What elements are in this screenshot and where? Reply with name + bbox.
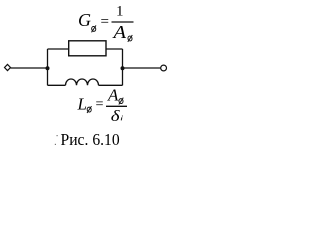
terminal T1 (left input terminal) <box>5 64 11 70</box>
svg-text:=: = <box>101 14 110 30</box>
subscript i of delta_i <box>121 115 123 120</box>
speckle <box>55 144 56 145</box>
wire top branch to resistor <box>48 48 70 50</box>
value label L0 = A0/delta_i (for inductor L0) <box>77 86 128 126</box>
svg-text:L: L <box>77 95 87 114</box>
node junction right (net N2) <box>121 66 125 70</box>
node junction left (net N1) <box>46 66 50 70</box>
svg-text:Рис. 6.10: Рис. 6.10 <box>61 129 120 149</box>
svg-text:δ: δ <box>111 108 120 125</box>
wire resistor to right vertical <box>106 48 123 50</box>
wire left terminal to node N1 <box>11 67 48 69</box>
fraction bar <box>106 105 127 107</box>
subscript 0 of L0 <box>87 106 92 113</box>
subscript 0 of G0 <box>91 25 96 32</box>
wire inductor to right vertical <box>99 84 123 86</box>
wire right vertical branch <box>122 49 124 85</box>
svg-text:=: = <box>96 97 104 113</box>
svg-text:G: G <box>78 10 91 30</box>
value label G0 = 1/A0 (for resistor G0) <box>78 4 134 42</box>
subscript 0 of A0 <box>118 98 123 105</box>
wire node N2 to right terminal <box>123 67 161 69</box>
terminal T2 (right output terminal) <box>161 65 167 71</box>
inductor L0 <box>66 79 99 85</box>
fraction bar <box>112 21 134 23</box>
subscript 0 of A0 <box>127 35 132 42</box>
svg-text:A: A <box>107 86 119 105</box>
svg-text:A: A <box>112 22 127 42</box>
speckle <box>57 135 58 136</box>
resistor G0 (box symbol) <box>69 41 106 56</box>
wire left vertical branch <box>47 49 49 85</box>
svg-text:1: 1 <box>116 4 124 20</box>
wire bottom branch to inductor <box>48 84 66 86</box>
